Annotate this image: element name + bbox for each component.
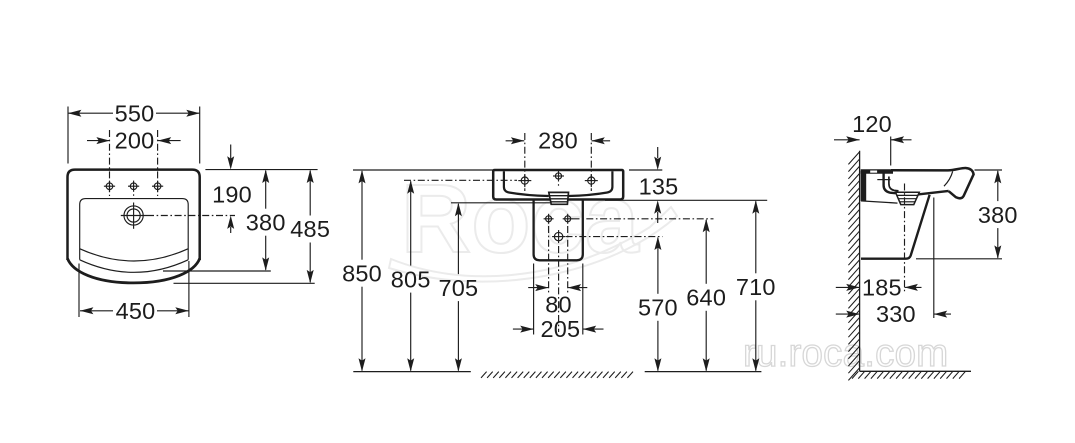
- side profile: tap axis tick: [877, 179, 890, 181]
- extension dash-dot tap holes left (805): [404, 179, 517, 181]
- rear view: left rim curl inner edge: [504, 171, 549, 196]
- ground line rear view: [353, 371, 471, 373]
- svg-text:135: 135: [639, 173, 679, 199]
- svg-text:705: 705: [438, 275, 478, 301]
- rear: faucet hole left: [521, 177, 528, 184]
- rear: faucet hole right: [588, 177, 595, 184]
- extension line inner bottom: [163, 270, 271, 272]
- wall hatch: [848, 152, 859, 380]
- washbasin plan view: outer contour: [68, 170, 200, 260]
- plan: drain centerline vertical: [133, 203, 135, 229]
- side profile: back wall cut (black strip): [861, 171, 867, 201]
- plan: faucet hole middle: [130, 183, 137, 190]
- side profile: tap hole slot: [870, 171, 877, 173]
- rear: box centerline dash-dot: [558, 246, 560, 332]
- svg-text:190: 190: [212, 182, 252, 208]
- ground hatch rear view: [481, 372, 633, 378]
- extension line 705 underside: [451, 202, 551, 204]
- extension line rear top left: [353, 169, 493, 171]
- dimension 135: [629, 169, 662, 171]
- side profile: deck cut section (black): [861, 169, 893, 174]
- extension line 710/135 underside right: [605, 199, 767, 201]
- rear view: basin casing outline: [493, 170, 623, 200]
- dimension 380 (plan): [265, 171, 267, 209]
- side profile: top rim line: [891, 168, 974, 198]
- side profile: rim inner thin curve: [944, 171, 953, 186]
- svg-text:380: 380: [246, 209, 286, 235]
- dimension 185: [836, 286, 860, 288]
- side profile: underside from drain to front: [918, 191, 949, 195]
- extension line 330 (front bottom edge): [933, 198, 935, 319]
- side profile: drain axis dash-dot: [904, 184, 906, 294]
- svg-text:450: 450: [116, 298, 156, 324]
- plan: drain outer circle: [124, 206, 143, 225]
- plan: faucet hole right: [154, 183, 161, 190]
- rear: fixing holes dash-dot horizontal: [573, 218, 714, 220]
- svg-text:570: 570: [638, 295, 678, 321]
- washbasin plan view: inner rim: [80, 199, 189, 260]
- dimension 570: [657, 238, 659, 294]
- rear view: semi-pedestal trap box: [534, 200, 583, 261]
- dimension 200: [87, 140, 110, 142]
- svg-text:280: 280: [538, 128, 578, 154]
- svg-text:200: 200: [115, 127, 155, 153]
- dimension 380 (side): [975, 169, 1003, 171]
- svg-text:710: 710: [736, 274, 776, 300]
- wall line: [859, 151, 861, 371]
- dimension 450: [78, 264, 80, 318]
- dimension 280: [506, 140, 525, 142]
- svg-text:380: 380: [978, 202, 1018, 228]
- floor line right view: [860, 370, 971, 372]
- svg-text:330: 330: [876, 301, 916, 327]
- dimension 705: [457, 204, 459, 274]
- floor hatch right view: [852, 371, 966, 378]
- svg-text:485: 485: [290, 216, 330, 242]
- side profile: bowl back wall: [884, 174, 896, 194]
- dimension 80: [528, 287, 548, 289]
- dimension 190: [230, 145, 232, 159]
- watermark Roca logo center: [389, 164, 677, 282]
- rear: lower hole dash-dot horizontal: [566, 236, 663, 238]
- svg-text:640: 640: [686, 285, 726, 311]
- dimension 805: [410, 181, 412, 265]
- dimension 550: [67, 107, 69, 164]
- dimension 640: [705, 220, 707, 284]
- rear: fixing hole right: [565, 216, 571, 222]
- rear: drain hole lower: [554, 232, 562, 240]
- svg-text:205: 205: [540, 316, 580, 342]
- rear view: right rim curl inner edge: [569, 171, 613, 196]
- svg-text:80: 80: [545, 292, 572, 318]
- svg-text:120: 120: [852, 111, 892, 137]
- extension line basin top right: [205, 169, 317, 171]
- svg-text:550: 550: [115, 101, 155, 127]
- rear view: trap cover hatch: [549, 192, 569, 204]
- dimension 205: [533, 264, 535, 335]
- side profile: shroud front slant: [861, 195, 930, 259]
- dimension 485: [309, 171, 311, 216]
- side profile: bowl inner surface line: [889, 177, 899, 191]
- dimension 850: [361, 171, 363, 260]
- plan: faucet hole left: [106, 183, 113, 190]
- rear: faucet hole middle: [555, 173, 561, 179]
- svg-text:805: 805: [391, 266, 431, 292]
- rear: fixing hole left: [546, 216, 552, 222]
- svg-text:850: 850: [342, 260, 382, 286]
- plan view: front band curve: [80, 260, 189, 273]
- dimension 330: [836, 313, 860, 315]
- svg-text:ru.roca.com: ru.roca.com: [743, 332, 948, 375]
- side profile: back underside line: [861, 201, 898, 203]
- plan: drain centerline horizontal dash-dot: [121, 215, 147, 217]
- extension line outer bottom: [174, 282, 315, 284]
- dimension 710: [755, 201, 757, 273]
- side profile: drain funnel hatched: [896, 192, 920, 204]
- svg-text:185: 185: [862, 275, 902, 301]
